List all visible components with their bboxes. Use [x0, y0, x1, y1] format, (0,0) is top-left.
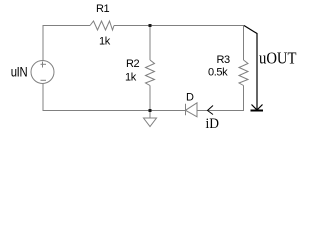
wire: left rail top (source to top rail corner)	[43, 26, 90, 61]
svg-text:D: D	[186, 92, 194, 104]
junction node dot top	[148, 24, 151, 27]
voltage source uIN	[31, 61, 54, 84]
voltage arrow uOUT	[244, 26, 263, 111]
svg-text:uIN: uIN	[11, 63, 28, 79]
wire: R2 bottom lead	[149, 86, 151, 111]
wire: R3 bottom lead and bottom rail right corner	[198, 86, 244, 111]
svg-text:1k: 1k	[125, 72, 137, 84]
ground stub	[149, 111, 151, 119]
current arrow iD	[208, 106, 214, 115]
svg-text:uOUT: uOUT	[259, 49, 297, 68]
diode D	[186, 103, 198, 117]
junction node dot bottom	[148, 109, 151, 112]
wire: R2 top lead	[149, 26, 151, 61]
resistor R2	[146, 60, 155, 86]
svg-text:R3: R3	[217, 54, 231, 66]
svg-text:iD: iD	[206, 116, 220, 132]
resistor R3	[239, 60, 248, 86]
svg-text:0.5k: 0.5k	[208, 66, 228, 78]
svg-text:1k: 1k	[99, 36, 111, 48]
wire: top rail middle (R1 to node)	[114, 25, 150, 27]
ground symbol	[144, 118, 157, 127]
svg-text:R1: R1	[96, 3, 110, 15]
svg-text:R2: R2	[126, 58, 140, 70]
resistor R1	[90, 21, 114, 30]
wire: bottom rail left (node to source)	[43, 84, 150, 111]
wire: bottom rail middle (diode to node)	[150, 110, 186, 112]
wire: top rail right (node to R3 corner)	[150, 26, 244, 61]
